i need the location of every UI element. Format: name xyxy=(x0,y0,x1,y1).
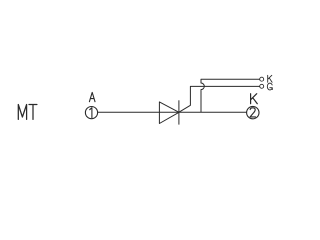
terminal K label small xyxy=(268,75,272,82)
terminal G label small xyxy=(267,83,272,90)
terminal circle 2 (cathode) xyxy=(247,106,259,118)
wire gate to terminal G xyxy=(179,86,260,112)
node K label xyxy=(251,94,258,104)
wire auxiliary cathode with hop over gate wire xyxy=(201,79,260,112)
wire main anode-cathode xyxy=(98,111,247,113)
node A label xyxy=(89,92,95,101)
terminal K small circle xyxy=(260,77,264,81)
terminal circle 1 (anode) xyxy=(85,107,97,119)
thyristor V1 cathode bar xyxy=(178,100,180,124)
thyristor V1 triangle xyxy=(159,102,179,124)
terminal G small circle xyxy=(260,84,264,88)
label MT (module type) xyxy=(18,105,37,120)
